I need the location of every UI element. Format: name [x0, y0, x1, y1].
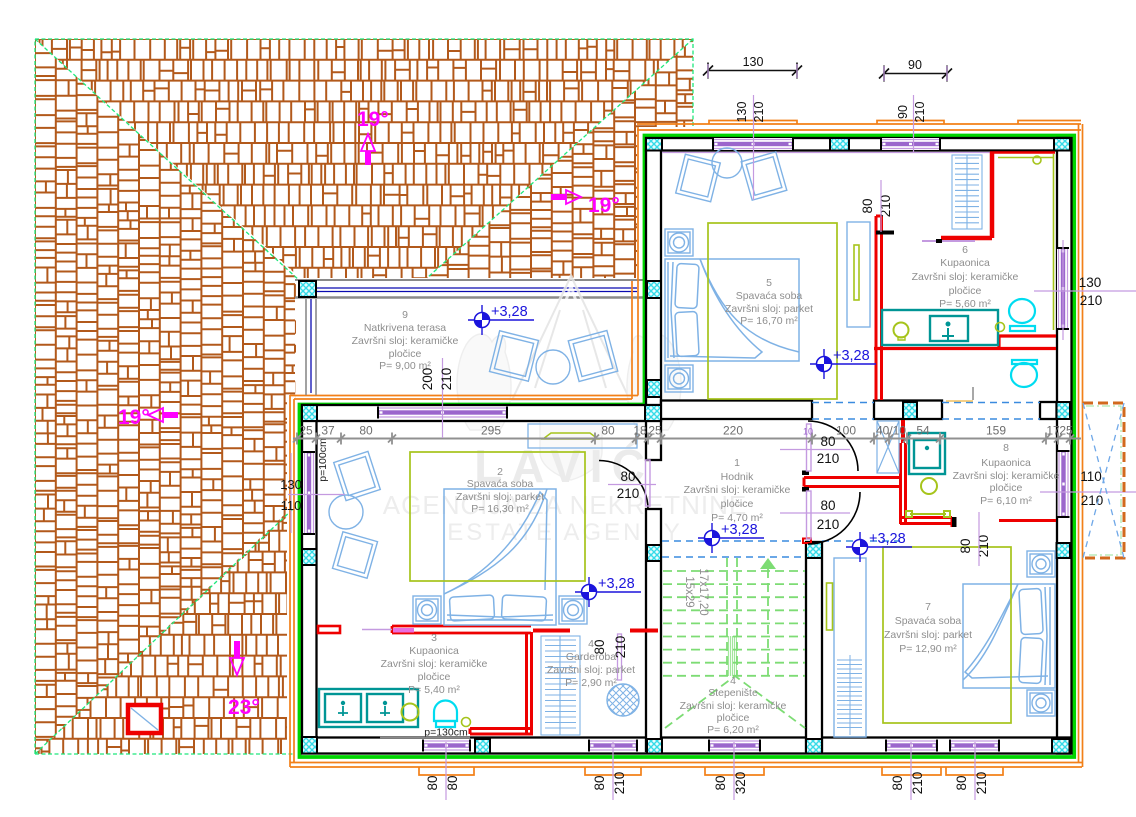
plan green outline	[300, 136, 1075, 758]
bed room5	[665, 259, 799, 361]
window top 90	[881, 138, 940, 150]
svg-text:+3,28: +3,28	[833, 348, 870, 364]
nightstands room7	[1027, 551, 1055, 577]
staircase	[663, 558, 805, 728]
svg-text:Završni sloj: parket: Završni sloj: parket	[547, 664, 635, 676]
svg-text:19°: 19°	[357, 108, 389, 131]
svg-text:210: 210	[976, 535, 991, 558]
terrace eave lines	[295, 279, 648, 281]
olive tile lines bath6	[998, 154, 1054, 330]
window right 130	[1057, 248, 1069, 329]
svg-text:80: 80	[620, 469, 635, 484]
main dimension chain	[293, 438, 1081, 440]
svg-text:P= 2,90 m²: P= 2,90 m²	[565, 677, 617, 689]
svg-text:295: 295	[481, 424, 501, 438]
svg-text:80: 80	[601, 424, 615, 438]
svg-text:pločice: pločice	[418, 671, 451, 683]
svg-text:130: 130	[1079, 275, 1102, 290]
svg-text:Kupaonica: Kupaonica	[409, 645, 459, 657]
svg-text:210: 210	[439, 368, 454, 391]
svg-text:P= 5,60 m²: P= 5,60 m²	[939, 298, 991, 310]
svg-text:210: 210	[910, 772, 925, 795]
towel bar bath8	[906, 511, 950, 517]
right dims	[1034, 290, 1136, 292]
svg-text:5: 5	[766, 277, 772, 289]
svg-text:Završni sloj: keramičke: Završni sloj: keramičke	[953, 470, 1060, 482]
wardrobe room7	[834, 558, 866, 737]
svg-text:210: 210	[974, 772, 989, 795]
svg-text:P= 6,10 m²: P= 6,10 m²	[980, 495, 1032, 507]
door hodnik lower	[808, 492, 860, 544]
roof hip SW	[35, 507, 295, 754]
svg-text:Završni sloj: keramičke: Završni sloj: keramičke	[352, 335, 459, 347]
blue dashed opening lines	[662, 403, 1040, 558]
svg-text:110: 110	[281, 498, 302, 513]
svg-text:19°: 19°	[118, 406, 150, 429]
svg-text:Završni sloj: parket: Završni sloj: parket	[456, 491, 544, 503]
terrace chairs	[490, 331, 618, 384]
door hodnik upper	[808, 421, 858, 471]
svg-text:18: 18	[633, 424, 647, 438]
svg-text:P= 16,70 m²: P= 16,70 m²	[740, 315, 798, 327]
svg-text:Kupaonica: Kupaonica	[940, 257, 990, 269]
svg-text:6: 6	[962, 244, 968, 256]
svg-text:23°: 23°	[228, 696, 260, 719]
svg-text:90: 90	[896, 105, 910, 119]
roof south slope tiles	[35, 510, 295, 760]
rug room5	[708, 223, 837, 399]
watermark logo	[457, 276, 681, 480]
svg-text:3: 3	[431, 632, 437, 644]
svg-text:80: 80	[820, 498, 835, 513]
svg-text:pločice: pločice	[990, 482, 1023, 494]
window terrace 295	[378, 407, 507, 419]
svg-text:210: 210	[752, 102, 766, 123]
window left 130	[303, 452, 315, 534]
svg-text:17: 17	[1046, 424, 1060, 438]
svg-text:210: 210	[1081, 493, 1104, 508]
svg-text:130: 130	[735, 102, 749, 123]
svg-text:210: 210	[817, 517, 840, 532]
svg-text:Završni sloj: keramičke: Završni sloj: keramičke	[680, 700, 787, 712]
bed room2 (vertical)	[444, 489, 556, 625]
door garderoba leaf	[618, 634, 622, 680]
toilet bath6	[1009, 299, 1035, 331]
chairs room5	[676, 148, 787, 202]
window top 130	[713, 138, 793, 150]
svg-text:210: 210	[617, 486, 640, 501]
roof hip NW	[35, 39, 300, 281]
terrace left edge	[305, 299, 307, 395]
svg-text:210: 210	[1080, 293, 1103, 308]
top dims 130 / 90	[703, 63, 952, 82]
vanity bath6	[882, 310, 998, 345]
svg-text:17x17,20: 17x17,20	[697, 568, 709, 615]
door bedroom2	[599, 461, 648, 510]
svg-text:80: 80	[592, 639, 607, 654]
svg-text:4: 4	[730, 675, 736, 687]
left dims 130/110	[288, 494, 345, 496]
svg-text:220: 220	[723, 424, 743, 438]
exterior and interior walls	[302, 138, 1072, 754]
svg-text:P= 6,20 m²: P= 6,20 m²	[707, 724, 759, 736]
svg-text:Natkrivena terasa: Natkrivena terasa	[364, 322, 446, 334]
svg-text:9: 9	[402, 309, 408, 321]
roof skylight	[128, 705, 161, 733]
svg-text:Spavaća soba: Spavaća soba	[736, 290, 803, 302]
svg-text:1: 1	[734, 457, 740, 469]
toilet bath3	[434, 701, 457, 728]
svg-text:Završni sloj: keramičke: Završni sloj: keramičke	[381, 658, 488, 670]
svg-text:+3,28: +3,28	[869, 531, 906, 547]
room labels	[352, 309, 459, 372]
svg-text:Završni sloj: keramičke: Završni sloj: keramičke	[912, 271, 1019, 283]
svg-text:Stepenište: Stepenište	[708, 687, 758, 699]
svg-text:80: 80	[359, 424, 373, 438]
svg-text:80: 80	[954, 775, 969, 790]
rug room7	[883, 547, 1011, 723]
svg-text:40/10: 40/10	[876, 424, 906, 438]
bed room7 (headboard right)	[963, 584, 1055, 688]
tv cabinet room5	[847, 222, 870, 327]
svg-text:Završni sloj: keramičke: Završni sloj: keramičke	[684, 484, 791, 496]
svg-text:P= 12,90 m²: P= 12,90 m²	[899, 643, 957, 655]
garderoba rail	[541, 636, 580, 735]
svg-text:159: 159	[986, 424, 1006, 438]
svg-text:pločice: pločice	[717, 712, 750, 724]
roof east slope tiles	[427, 39, 697, 278]
svg-text:Završni sloj: parket: Završni sloj: parket	[725, 303, 813, 315]
svg-text:25: 25	[299, 424, 313, 438]
svg-text:210: 210	[913, 102, 927, 123]
svg-text:80: 80	[820, 434, 835, 449]
roof west slope tiles	[35, 39, 305, 754]
svg-text:Spavaća soba: Spavaća soba	[895, 615, 962, 627]
svg-text:pločice: pločice	[389, 348, 422, 360]
red plumbing walls	[318, 152, 1056, 735]
svg-text:Završni sloj: parket: Završni sloj: parket	[884, 629, 972, 641]
svg-text:P= 5,40 m²: P= 5,40 m²	[408, 684, 460, 696]
svg-text:P= 16,30 m²: P= 16,30 m²	[471, 503, 529, 515]
svg-text:Spavaća soba: Spavaća soba	[467, 478, 534, 490]
svg-text:100: 100	[836, 424, 856, 438]
svg-text:200: 200	[420, 368, 435, 391]
svg-text:210: 210	[878, 195, 893, 218]
svg-text:7: 7	[925, 601, 931, 613]
svg-text:Hodnik: Hodnik	[721, 471, 754, 483]
vanity bath3	[319, 689, 418, 727]
lilac sill line top	[662, 152, 1055, 154]
svg-text:80: 80	[445, 775, 460, 790]
window right 110	[1058, 451, 1070, 517]
orange lower-floor contour	[290, 121, 1083, 776]
shaft bath8	[877, 421, 899, 473]
svg-text:80: 80	[713, 775, 728, 790]
dashed neighbour object right	[1083, 403, 1124, 558]
svg-text:2: 2	[497, 466, 503, 478]
vanity bath8	[909, 433, 945, 474]
roof north slope tiles	[35, 39, 693, 289]
roof outline dashed	[35, 39, 693, 754]
svg-text:210: 210	[817, 451, 840, 466]
bidet bath6	[1011, 360, 1037, 387]
svg-text:8: 8	[1003, 442, 1009, 454]
svg-text:+3,28: +3,28	[598, 576, 635, 592]
svg-text:pločice: pločice	[721, 498, 754, 510]
svg-text:210: 210	[613, 636, 628, 659]
svg-text:25: 25	[648, 424, 662, 438]
svg-text:p=100cm: p=100cm	[317, 438, 329, 482]
svg-text:130: 130	[280, 477, 302, 492]
elevation markers +3,28	[468, 304, 534, 335]
svg-text:80: 80	[890, 775, 905, 790]
svg-text:80: 80	[592, 775, 607, 790]
svg-text:+3,28: +3,28	[721, 522, 758, 538]
svg-text:80: 80	[958, 538, 973, 553]
svg-text:110: 110	[1080, 469, 1102, 484]
svg-text:90: 90	[908, 58, 922, 72]
windows bottom wall	[423, 740, 470, 752]
svg-text:210: 210	[612, 772, 627, 795]
bottom rotated dims	[445, 742, 447, 800]
svg-text:37: 37	[321, 424, 335, 438]
rug room2	[410, 452, 585, 581]
nightstands room5	[665, 229, 693, 256]
svg-text:Kupaonica: Kupaonica	[981, 457, 1031, 469]
svg-text:320: 320	[733, 772, 748, 795]
svg-text:10: 10	[803, 427, 813, 437]
nightstands room2	[413, 596, 441, 624]
svg-text:25: 25	[1059, 424, 1073, 438]
svg-text:54: 54	[916, 424, 930, 438]
svg-text:19°: 19°	[588, 194, 620, 217]
svg-text:15x29: 15x29	[683, 576, 695, 607]
svg-text:80: 80	[425, 775, 440, 790]
svg-text:80: 80	[860, 198, 875, 213]
terrace window 200/210 labels	[442, 358, 444, 438]
radiator bath6	[952, 155, 982, 229]
svg-text:130: 130	[743, 55, 764, 69]
roof hip NE	[427, 39, 693, 278]
garderoba pouf	[607, 684, 639, 716]
shelf room2 top	[528, 424, 637, 448]
svg-text:+3,28: +3,28	[491, 304, 528, 320]
cyan column piers	[299, 138, 1070, 754]
chairs room2	[329, 451, 380, 578]
svg-text:pločice: pločice	[949, 285, 982, 297]
